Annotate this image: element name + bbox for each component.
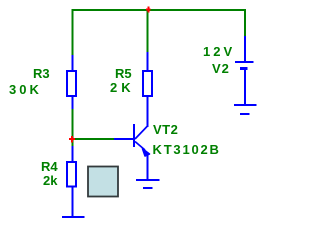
svg-text:2K: 2K [110, 80, 135, 95]
svg-text:VT2: VT2 [153, 122, 178, 137]
svg-text:V2: V2 [212, 61, 230, 76]
svg-text:2k: 2k [43, 173, 58, 188]
svg-text:KT3102B: KT3102B [153, 142, 221, 157]
svg-text:R3: R3 [33, 66, 50, 81]
svg-text:30K: 30K [9, 82, 42, 97]
svg-text:R4: R4 [41, 159, 58, 174]
svg-text:12V: 12V [203, 44, 235, 59]
svg-text:R5: R5 [115, 66, 132, 81]
